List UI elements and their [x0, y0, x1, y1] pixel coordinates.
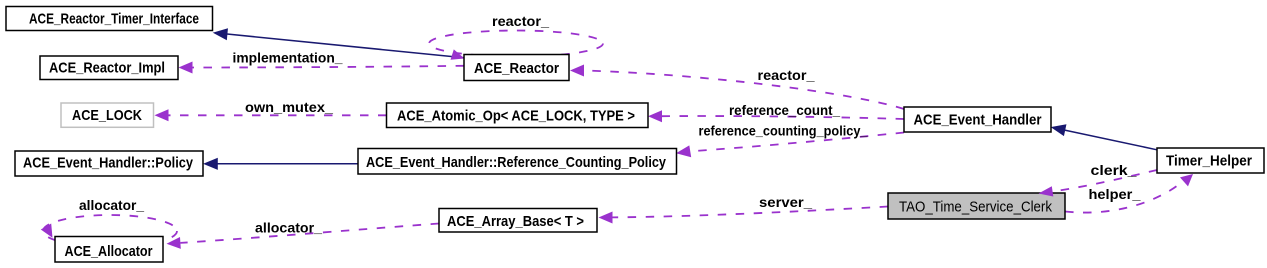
- wire dashed edge reactor_ ACE_Event_Handler to ACE_Reactor: [570, 65, 904, 110]
- svg-text:ACE_Event_Handler::Reference_C: ACE_Event_Handler::Reference_Counting_Po…: [366, 154, 667, 171]
- svg-text:ACE_Array_Base< T >: ACE_Array_Base< T >: [447, 213, 584, 230]
- wire clerk_ arrowhead (overlaps TAO box top edge): [1039, 186, 1054, 196]
- wire inheritance arrow ACE_Reactor to ACE_Reactor_Timer_Interface: [214, 29, 464, 58]
- svg-text:server_: server_: [759, 194, 812, 210]
- svg-text:allocator_: allocator_: [255, 220, 322, 236]
- svg-text:ACE_Reactor: ACE_Reactor: [474, 60, 559, 77]
- wire dashed self-loop allocator_ on ACE_Allocator: [41, 215, 177, 247]
- node box ACE_Reactor_Impl: [40, 56, 178, 80]
- svg-text:reference_counting_policy_: reference_counting_policy_: [699, 123, 868, 139]
- wire dashed self-loop reactor_ on ACE_Reactor: [429, 31, 603, 60]
- svg-text:allocator_: allocator_: [79, 197, 144, 213]
- wire dashed edge implementation_ ACE_Reactor to ACE_Reactor_Impl: [179, 62, 465, 74]
- svg-text:helper_: helper_: [1089, 186, 1141, 202]
- node box ACE_Event_Handler::Policy: [15, 151, 203, 176]
- node box ACE_Reactor_Timer_Interface: [6, 7, 213, 31]
- svg-text:reactor_: reactor_: [492, 13, 549, 29]
- wire dashed edge server_ TAO_Time_Service_Clerk to ACE_Array_Base: [599, 207, 889, 224]
- svg-text:ACE_Event_Handler::Policy: ACE_Event_Handler::Policy: [23, 155, 194, 172]
- svg-text:ACE_Reactor_Impl: ACE_Reactor_Impl: [49, 60, 165, 77]
- svg-text:ACE_Allocator: ACE_Allocator: [65, 243, 153, 260]
- svg-text:ACE_Reactor_Timer_Interface: ACE_Reactor_Timer_Interface: [29, 11, 199, 28]
- svg-text:TAO_Time_Service_Clerk: TAO_Time_Service_Clerk: [899, 199, 1052, 216]
- svg-text:reference_count_: reference_count_: [729, 102, 840, 118]
- wire dashed edge own_mutex_ ACE_Atomic_Op to ACE_LOCK: [155, 109, 387, 121]
- wire dashed edge reference_count_ ACE_Event_Handler to ACE_Atomic_Op: [648, 110, 904, 122]
- node box ACE_Event_Handler: [904, 107, 1051, 132]
- wire inheritance arrow ACE_Event_Handler::Reference_Counting_Policy to ACE_Event_Handler::Policy: [204, 159, 358, 170]
- svg-text:ACE_LOCK: ACE_LOCK: [72, 107, 142, 124]
- svg-text:ACE_Atomic_Op< ACE_LOCK, TYPE: ACE_Atomic_Op< ACE_LOCK, TYPE >: [397, 108, 635, 125]
- node box ACE_Reactor: [464, 55, 569, 81]
- svg-text:clerk_: clerk_: [1091, 162, 1137, 178]
- svg-text:own_mutex_: own_mutex_: [245, 99, 333, 115]
- node box Timer_Helper: [1157, 148, 1264, 173]
- node box ACE_Event_Handler::Reference_Counting_Policy: [358, 149, 677, 175]
- node box ACE_LOCK (template parameter, gray border): [61, 103, 154, 127]
- svg-text:Timer_Helper: Timer_Helper: [1166, 153, 1252, 170]
- wire inheritance arrow Timer_Helper to ACE_Event_Handler: [1052, 125, 1157, 150]
- wire dashed edge allocator_ ACE_Array_Base to ACE_Allocator: [167, 224, 440, 249]
- wire dashed edge helper_ TAO_Time_Service_Clerk to Timer_Helper: [1065, 174, 1193, 213]
- node box ACE_Atomic_Op< ACE_LOCK, TYPE >: [387, 103, 649, 128]
- node box ACE_Allocator: [55, 237, 163, 263]
- wire dashed edge clerk_ Timer_Helper to TAO_Time_Service_Clerk: [1052, 170, 1157, 192]
- wire dashed edge reference_counting_policy_ ACE_Event_Handler to ACE_Event_Handler::Reference_Counting_Policy: [676, 133, 904, 158]
- svg-text:implementation_: implementation_: [233, 50, 343, 66]
- svg-text:ACE_Event_Handler: ACE_Event_Handler: [914, 112, 1042, 129]
- node box TAO_Time_Service_Clerk (current node, gray fill): [888, 193, 1065, 219]
- node box ACE_Array_Base< T >: [439, 209, 597, 233]
- svg-text:reactor_: reactor_: [758, 67, 815, 83]
